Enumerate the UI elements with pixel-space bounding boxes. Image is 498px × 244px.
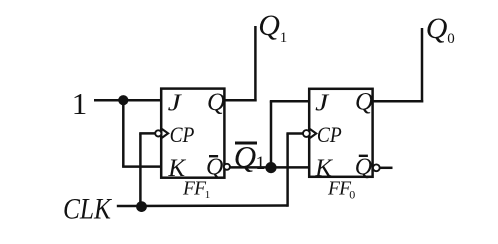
svg-text:Q: Q — [258, 9, 280, 42]
wire Q1 output horizontal — [224, 99, 256, 102]
wire CP0 horizontal — [286, 132, 303, 135]
svg-text:1: 1 — [205, 189, 211, 201]
edge-trigger wedge CP0 — [310, 129, 316, 138]
svg-text:CP: CP — [317, 122, 342, 147]
svg-text:CLK: CLK — [63, 193, 113, 226]
svg-text:Q: Q — [207, 89, 225, 116]
overbar of Qbar1 — [235, 142, 257, 145]
junction dot CLK — [136, 201, 147, 212]
svg-text:J: J — [168, 89, 182, 116]
overbar of Qbar FF0 — [359, 155, 368, 157]
svg-text:0: 0 — [349, 188, 355, 202]
svg-text:1: 1 — [256, 153, 266, 174]
svg-text:Q: Q — [355, 154, 372, 180]
wire Qbar0 stub — [380, 167, 393, 170]
wire 1-to-J1 — [94, 99, 161, 102]
wire Q0 output horizontal — [373, 100, 424, 103]
wire CLK horizontal — [117, 204, 288, 207]
junction dot node Qbar1 — [265, 162, 276, 173]
wire CP1 vertical from CLK — [139, 133, 142, 206]
bubble CP0 (active-low clock) — [303, 130, 310, 137]
junction dot node J1/K1 — [118, 95, 128, 105]
svg-text:1: 1 — [280, 30, 288, 46]
flip-flop FF0 box — [309, 89, 372, 177]
wire CP1 horizontal — [139, 132, 155, 135]
svg-text:Q: Q — [206, 155, 223, 181]
svg-text:FF: FF — [182, 179, 207, 200]
wire to J0 input — [270, 100, 309, 103]
bubble Qbar0 output — [373, 164, 380, 171]
wire Q1 output vertical — [254, 26, 257, 102]
wire Qbar1 to K0 — [230, 166, 309, 169]
wire to K1 input — [122, 165, 161, 168]
overbar of Qbar FF1 — [209, 155, 218, 157]
flip-flop FF1 box — [161, 89, 224, 178]
bubble Qbar1 output — [224, 164, 230, 170]
wire CLK up to CP0 — [286, 134, 289, 207]
svg-text:J: J — [315, 89, 329, 116]
wire junction up to J0 — [270, 101, 273, 167]
svg-text:1: 1 — [72, 86, 88, 121]
wire Q0 output vertical — [421, 28, 424, 103]
edge-trigger wedge CP1 — [162, 129, 168, 138]
wire junction-down — [122, 100, 125, 166]
svg-text:Q: Q — [426, 12, 448, 45]
svg-text:Q: Q — [355, 89, 373, 116]
bubble CP1 (active-low clock) — [155, 130, 161, 136]
svg-text:CP: CP — [170, 122, 195, 147]
svg-text:0: 0 — [447, 31, 455, 47]
